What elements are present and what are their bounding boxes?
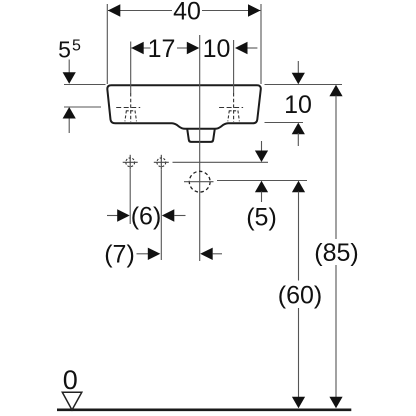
extension line basin bottom right: [265, 122, 304, 124]
svg-text:(5): (5): [246, 204, 277, 232]
dimension (85): [314, 85, 358, 409]
washbasin outline: [107, 85, 261, 129]
dimension (7): [104, 241, 222, 269]
tap hole left: [116, 93, 140, 122]
drain outlet: [187, 129, 215, 142]
svg-text:(60): (60): [278, 282, 322, 310]
extension line basin top right: [265, 84, 343, 86]
drain hole circle: [184, 171, 214, 192]
dimension (60): [278, 181, 322, 409]
extension line fixing hole level: [173, 161, 269, 163]
dimension (5): [246, 141, 277, 232]
extension line tap hole level left: [64, 106, 101, 108]
dimension 17: [131, 35, 200, 93]
svg-text:5: 5: [58, 37, 71, 63]
svg-text:40: 40: [173, 0, 201, 26]
dimension 5^5 left: [58, 37, 81, 133]
centerline drain axis: [199, 35, 201, 261]
svg-text:(6): (6): [131, 203, 162, 231]
svg-text:10: 10: [284, 91, 312, 119]
dimension 40: [107, 0, 261, 84]
extension line drain hole level: [217, 180, 307, 182]
fixing hole left: [123, 155, 138, 170]
svg-text:(7): (7): [104, 241, 135, 269]
dimension 10 right: [284, 61, 312, 146]
svg-text:0: 0: [63, 365, 78, 395]
svg-text:17: 17: [148, 35, 176, 63]
dimension 10 top: [203, 35, 258, 93]
svg-text:10: 10: [203, 35, 231, 63]
svg-text:(85): (85): [314, 239, 358, 267]
svg-text:5: 5: [72, 37, 81, 54]
datum symbol 0: [62, 365, 82, 410]
dimension (6): [107, 170, 186, 260]
fixing hole right: [154, 155, 169, 170]
extension line basin top left: [64, 84, 106, 86]
floor line: [57, 408, 351, 411]
tap hole right: [219, 93, 243, 122]
